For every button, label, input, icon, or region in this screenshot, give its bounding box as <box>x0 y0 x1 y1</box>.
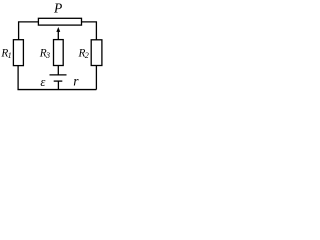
resistor R1 body <box>13 40 23 66</box>
battery negative plate <box>54 80 63 82</box>
svg-text:R2: R2 <box>78 47 89 60</box>
wire left-bottom segment <box>17 66 19 90</box>
potentiometer P body <box>38 18 81 25</box>
wiper arrow stem <box>57 31 59 40</box>
svg-text:P: P <box>53 0 62 15</box>
svg-text:r: r <box>73 74 79 89</box>
wire top-right segment <box>82 22 97 40</box>
wire right-bottom segment <box>95 66 97 90</box>
wiper arrowhead <box>56 27 60 32</box>
wire top-left segment <box>19 22 39 40</box>
resistor R3 body <box>54 40 64 66</box>
battery positive plate <box>50 74 67 76</box>
wire battery to bottom <box>57 81 59 89</box>
svg-text:R1: R1 <box>0 47 11 60</box>
svg-text:R3: R3 <box>39 47 50 60</box>
resistor R2 body <box>91 40 102 66</box>
bottom wire <box>17 89 96 91</box>
svg-text:ε: ε <box>40 74 46 89</box>
wire R3 to battery <box>57 66 59 75</box>
